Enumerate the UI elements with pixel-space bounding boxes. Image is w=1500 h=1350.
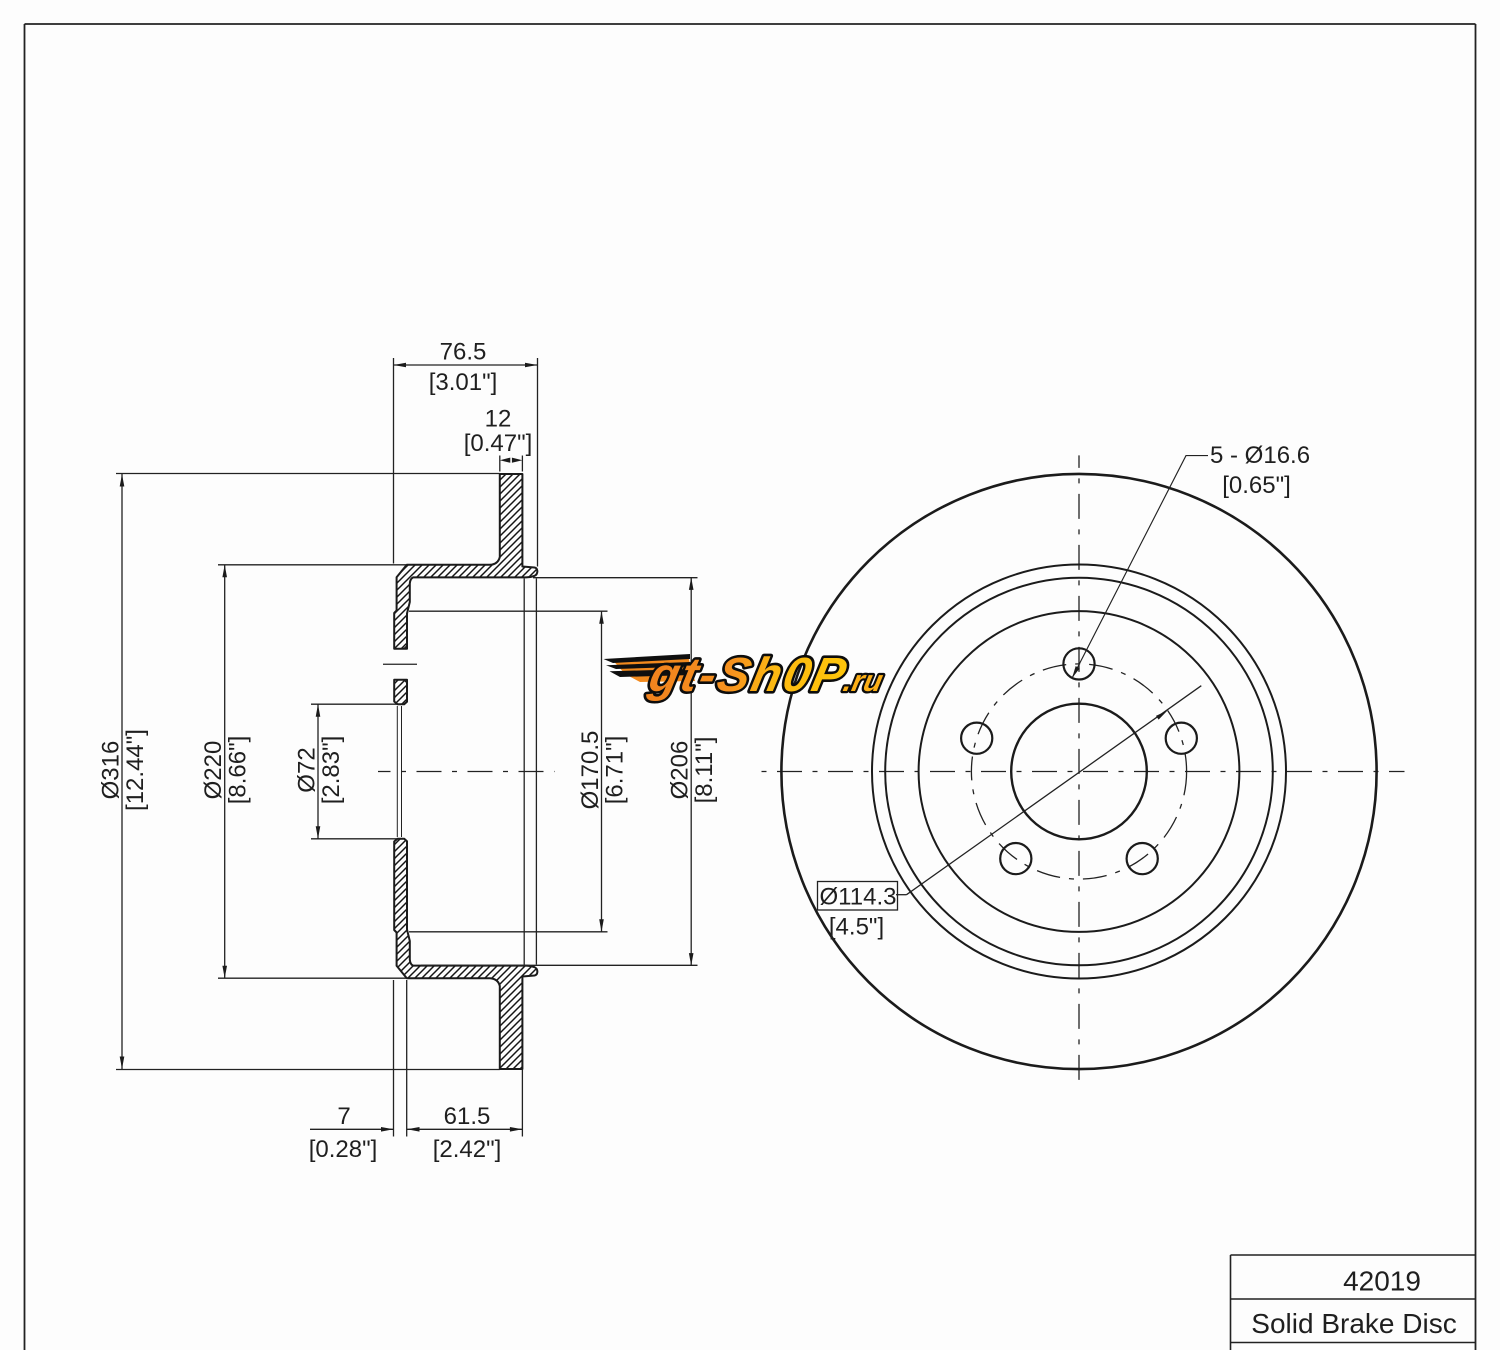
svg-text:.ru: .ru <box>841 665 886 698</box>
svg-text:[2.83"]: [2.83"] <box>318 736 345 805</box>
svg-text:[3.01"]: [3.01"] <box>429 369 498 396</box>
svg-text:Ø72: Ø72 <box>294 747 321 792</box>
svg-text:[2.42"]: [2.42"] <box>433 1136 502 1163</box>
svg-text:gt-Sh0P: gt-Sh0P <box>644 648 853 701</box>
svg-text:Ø220: Ø220 <box>200 741 227 800</box>
svg-text:12: 12 <box>485 406 512 433</box>
svg-text:[12.44"]: [12.44"] <box>122 729 149 811</box>
svg-text:Ø114.3: Ø114.3 <box>820 884 897 911</box>
svg-text:[0.65"]: [0.65"] <box>1222 472 1291 499</box>
svg-text:7: 7 <box>337 1103 350 1130</box>
svg-text:[0.47"]: [0.47"] <box>464 430 533 457</box>
svg-text:Ø206: Ø206 <box>667 741 694 800</box>
svg-text:[8.11"]: [8.11"] <box>691 737 718 804</box>
svg-text:42019: 42019 <box>1343 1265 1421 1296</box>
svg-text:61.5: 61.5 <box>444 1103 491 1130</box>
svg-text:5 - Ø16.6: 5 - Ø16.6 <box>1210 442 1310 469</box>
svg-text:[0.28"]: [0.28"] <box>309 1136 378 1163</box>
svg-text:Ø170.5: Ø170.5 <box>577 731 604 810</box>
svg-text:[6.71"]: [6.71"] <box>602 736 629 805</box>
svg-text:Ø316: Ø316 <box>98 741 125 800</box>
svg-text:[4.5"]: [4.5"] <box>829 914 884 941</box>
svg-text:76.5: 76.5 <box>440 339 487 366</box>
svg-text:[8.66"]: [8.66"] <box>225 736 252 805</box>
svg-text:Solid Brake Disc: Solid Brake Disc <box>1251 1308 1456 1339</box>
